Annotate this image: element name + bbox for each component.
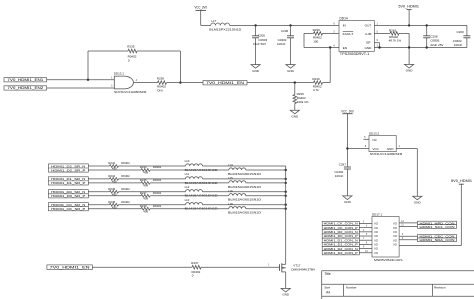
svg-text:ILIM: ILIM	[365, 32, 371, 36]
svg-text:L18: L18	[228, 202, 233, 206]
svg-text:Revision: Revision	[434, 286, 446, 290]
svg-text:DD13.1: DD13.1	[114, 72, 125, 76]
svg-text:R0402: R0402	[121, 161, 130, 165]
svg-text:R238: R238	[157, 76, 165, 80]
svg-text:7V0_HDMI1_EN: 7V0_HDMI1_EN	[206, 81, 245, 85]
svg-text:FAULT: FAULT	[343, 32, 354, 36]
svg-text:R235: R235	[127, 45, 135, 49]
svg-text:499: 499	[143, 171, 148, 175]
svg-text:L15: L15	[228, 176, 233, 180]
svg-text:OUT: OUT	[365, 24, 372, 28]
svg-text:R245: R245	[140, 178, 147, 182]
svg-text:HDMI1_D2_CON_P: HDMI1_D2_CON_P	[324, 251, 358, 255]
svg-text:Title: Title	[324, 272, 330, 276]
svg-text:R243: R243	[140, 165, 147, 169]
svg-text:C209: C209	[457, 30, 465, 34]
svg-text:SN74LVC1G08DSFR: SN74LVC1G08DSFR	[370, 152, 403, 156]
svg-text:100k 1%: 100k 1%	[297, 100, 309, 104]
svg-text:Size: Size	[324, 286, 330, 290]
svg-text:GND: GND	[344, 200, 352, 204]
svg-text:BLM15AG601SN1D: BLM15AG601SN1D	[228, 198, 261, 202]
svg-text:HDMI1_CK_SR_P: HDMI1_CK_SR_P	[51, 207, 85, 211]
svg-text:R248: R248	[108, 200, 115, 204]
svg-text:L17: L17	[211, 19, 216, 23]
svg-text:5V0_HDMI1: 5V0_HDMI1	[398, 4, 419, 8]
svg-text:R0402: R0402	[121, 200, 130, 204]
svg-text:EP: EP	[366, 41, 370, 45]
svg-text:7V0_HDMI1_EN1: 7V0_HDMI1_EN1	[7, 78, 43, 82]
svg-text:7V0_HDMI1_EN: 7V0_HDMI1_EN	[50, 265, 91, 269]
svg-text:R0402: R0402	[121, 187, 130, 191]
svg-text:DD14: DD14	[340, 17, 348, 21]
svg-text:GND: GND	[287, 69, 295, 73]
svg-text:BLM15AG601SN1D: BLM15AG601SN1D	[228, 185, 261, 189]
svg-text:R249: R249	[140, 204, 147, 208]
svg-text:A4: A4	[326, 291, 330, 295]
svg-text:VCC_3V0: VCC_3V0	[341, 110, 354, 114]
svg-text:GND: GND	[291, 114, 299, 118]
svg-text:100nF: 100nF	[277, 42, 286, 46]
svg-text:R240: R240	[312, 77, 320, 81]
svg-text:100: 100	[313, 40, 318, 44]
svg-text:4.7k: 4.7k	[313, 88, 319, 92]
svg-text:DNI: DNI	[157, 88, 162, 92]
svg-text:R0402: R0402	[153, 204, 162, 208]
svg-text:22uF 25V: 22uF 25V	[430, 43, 443, 47]
svg-text:R0402: R0402	[121, 174, 130, 178]
svg-text:R0402: R0402	[153, 165, 162, 169]
svg-text:GND: GND	[365, 46, 373, 50]
svg-text:499: 499	[143, 196, 148, 200]
svg-text:MSD5V0524C4US: MSD5V0524C4US	[374, 258, 403, 262]
svg-text:BLM15AG601SN1D: BLM15AG601SN1D	[228, 211, 261, 215]
svg-text:SN74LVC1G08DSFR: SN74LVC1G08DSFR	[114, 90, 147, 94]
svg-text:L10: L10	[185, 159, 190, 163]
svg-text:499: 499	[143, 184, 148, 188]
svg-text:HDMI1_SCL_CON: HDMI1_SCL_CON	[420, 225, 455, 229]
svg-text:R246: R246	[108, 187, 115, 191]
svg-text:DD13.2: DD13.2	[369, 131, 380, 135]
svg-text:15nF 50V: 15nF 50V	[253, 42, 266, 46]
svg-text:GND: GND	[414, 200, 422, 204]
svg-text:L14: L14	[228, 163, 233, 167]
svg-text:TPS2553DRVT-1: TPS2553DRVT-1	[340, 52, 370, 56]
svg-text:L13: L13	[185, 198, 190, 202]
svg-text:7V0_HDMI1_EN2: 7V0_HDMI1_EN2	[7, 86, 43, 90]
svg-text:48.7k 1%: 48.7k 1%	[389, 39, 402, 43]
svg-text:C206: C206	[281, 29, 289, 33]
svg-text:C205: C205	[258, 34, 266, 38]
svg-text:VCC_3V0: VCC_3V0	[194, 6, 207, 10]
svg-text:R0402: R0402	[153, 191, 162, 195]
svg-text:HDMI1_D1_SR_P: HDMI1_D1_SR_P	[51, 181, 85, 185]
svg-text:5V0_HDMI1: 5V0_HDMI1	[451, 179, 472, 183]
svg-text:R237: R237	[191, 261, 199, 265]
svg-text:HDMI1_D2_SR_P: HDMI1_D2_SR_P	[51, 168, 85, 172]
svg-text:DMN3404K3TB4: DMN3404K3TB4	[291, 267, 315, 271]
svg-text:IN: IN	[343, 24, 346, 28]
svg-text:GND: GND	[252, 69, 260, 73]
svg-text:499: 499	[143, 209, 148, 213]
svg-text:HDMI1_SDA_CON: HDMI1_SDA_CON	[420, 238, 455, 242]
svg-text:DD17.1: DD17.1	[372, 213, 383, 217]
svg-text:R242: R242	[108, 161, 115, 165]
svg-text:EN: EN	[343, 46, 347, 50]
svg-text:GND: GND	[387, 147, 395, 151]
svg-text:R244: R244	[108, 174, 115, 178]
svg-text:L16: L16	[228, 189, 233, 193]
svg-text:L12: L12	[185, 185, 190, 189]
svg-text:GND: GND	[406, 69, 414, 73]
svg-text:BLM15PX221SN1D: BLM15PX221SN1D	[209, 27, 242, 31]
svg-text:L11: L11	[185, 172, 190, 176]
svg-text:HDMI1_D0_SR_P: HDMI1_D0_SR_P	[51, 194, 85, 198]
svg-text:Number: Number	[346, 286, 357, 290]
svg-text:R0402: R0402	[153, 178, 162, 182]
svg-text:C297: C297	[339, 162, 347, 166]
svg-text:R239: R239	[313, 28, 321, 32]
svg-text:100nF: 100nF	[335, 174, 344, 178]
svg-text:R241: R241	[389, 28, 397, 32]
svg-text:100nF: 100nF	[454, 43, 463, 47]
svg-text:R247: R247	[140, 191, 147, 195]
svg-text:VCC: VCC	[373, 147, 380, 151]
svg-text:GND: GND	[282, 293, 290, 297]
svg-text:BLM15AG601SN1D: BLM15AG601SN1D	[228, 172, 261, 176]
